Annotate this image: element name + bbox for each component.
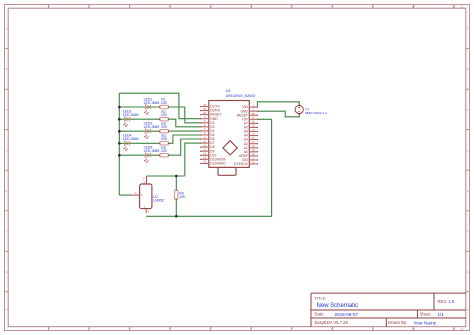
svg-text:LED-3MM: LED-3MM xyxy=(144,149,160,153)
wire: top rail to arduino GND pin xyxy=(119,93,200,119)
border row letters left xyxy=(5,27,8,312)
svg-text:Your Name: Your Name xyxy=(414,320,437,325)
wire: R3 to D4 xyxy=(169,130,201,132)
svg-text:F: F xyxy=(6,229,8,233)
resistor R3 xyxy=(159,130,169,133)
svg-text:12: 12 xyxy=(460,5,464,9)
resistor R2 label xyxy=(161,110,167,117)
LED2 label xyxy=(123,110,139,118)
LED3 xyxy=(144,129,150,139)
svg-text:New Schematic: New Schematic xyxy=(317,303,359,309)
resistor R4 label xyxy=(161,134,167,141)
wire: R6 top lead xyxy=(175,176,177,190)
wire: LM35 left pin to rail xyxy=(119,194,131,196)
svg-text:Date:: Date: xyxy=(315,312,325,317)
op-amp U2 LM35Z body xyxy=(132,176,152,213)
wire: LED row 1 xyxy=(119,106,159,108)
op-amp U3 ARDUINO_NANO body xyxy=(209,101,250,168)
svg-text:Sheet:: Sheet: xyxy=(420,312,432,317)
svg-text:ARDUINO_NANO: ARDUINO_NANO xyxy=(226,94,256,98)
svg-text:200: 200 xyxy=(161,149,167,153)
svg-text:2018-09-07: 2018-09-07 xyxy=(335,312,359,317)
resistor R6 xyxy=(175,189,178,200)
svg-text:REV: 1.0: REV: 1.0 xyxy=(438,299,455,304)
svg-text:200: 200 xyxy=(161,137,167,141)
svg-text:A: A xyxy=(467,27,469,31)
U3 right pin names xyxy=(234,105,249,166)
wire: R2 to D3 xyxy=(169,119,201,127)
svg-text:200: 200 xyxy=(161,125,167,129)
title block frame xyxy=(311,293,466,327)
LED3 label xyxy=(144,122,160,130)
resistor R4 xyxy=(159,142,169,145)
svg-text:200: 200 xyxy=(161,101,167,105)
wire: bottom +5V rail xyxy=(146,119,271,216)
wire: LED row 5 xyxy=(119,154,159,156)
wire: LM35 vout horizontal xyxy=(147,175,185,177)
svg-text:LED-3MM: LED-3MM xyxy=(123,113,139,117)
U3 right pins xyxy=(249,107,257,164)
svg-text:10: 10 xyxy=(411,5,415,9)
wire: R5 to D6 xyxy=(169,139,201,155)
svg-text:11: 11 xyxy=(452,5,455,9)
svg-text:U3: U3 xyxy=(226,89,230,93)
svg-text:200: 200 xyxy=(161,113,167,117)
svg-text:TITLE:: TITLE: xyxy=(315,295,327,300)
LED4 label xyxy=(123,134,139,142)
svg-text:LED-3MM: LED-3MM xyxy=(144,101,160,105)
junction dots xyxy=(118,106,178,218)
resistor R6 label xyxy=(179,191,186,199)
LED1 xyxy=(144,105,150,115)
LED5 label xyxy=(144,146,160,154)
U3 label xyxy=(226,89,256,98)
title block text REV xyxy=(438,299,455,304)
Y1 label xyxy=(305,108,327,115)
wire: R4 to D5 xyxy=(169,135,201,143)
border column numbers top xyxy=(47,5,464,9)
svg-text:D: D xyxy=(5,148,7,152)
U3 diamond mark xyxy=(223,141,237,155)
title block text TITLE xyxy=(315,295,359,309)
border row letters right xyxy=(467,27,470,312)
svg-text:B: B xyxy=(467,67,469,71)
svg-text:D13/SCK: D13/SCK xyxy=(234,162,249,166)
svg-text:10K: 10K xyxy=(179,195,186,199)
resistor R1 xyxy=(159,105,169,108)
svg-text:B: B xyxy=(5,67,7,71)
wire: GND to source bottom xyxy=(257,111,299,117)
LED2 xyxy=(124,117,130,127)
resistor R3 label xyxy=(161,122,167,129)
wire: LED row 4 xyxy=(119,142,159,144)
svg-text:F: F xyxy=(467,229,469,233)
svg-text:E: E xyxy=(467,189,469,193)
resistor R2 xyxy=(159,118,169,121)
svg-text:LED-3MM: LED-3MM xyxy=(144,125,160,129)
wire: D7 to LM35 vout net xyxy=(185,143,201,176)
svg-text:C: C xyxy=(5,108,7,112)
U3 pin end dots xyxy=(200,106,258,165)
U3 usb tab xyxy=(218,167,236,175)
wire: R1 to D2 xyxy=(169,107,201,123)
wire: GND left rail xyxy=(118,93,120,195)
svg-text:12: 12 xyxy=(460,327,464,331)
svg-text:11: 11 xyxy=(452,327,455,331)
svg-text:D: D xyxy=(467,148,469,152)
border column numbers bottom xyxy=(47,327,464,331)
svg-text:Drawn By:: Drawn By: xyxy=(388,320,407,325)
wire: VIN to source top xyxy=(257,102,299,107)
U3 right pin numbers xyxy=(252,104,255,164)
svg-text:LED-3MM: LED-3MM xyxy=(123,137,139,141)
U2 label xyxy=(153,195,165,203)
U3 left pin numbers xyxy=(203,104,206,164)
title block text Date xyxy=(315,312,445,317)
svg-text:A: A xyxy=(5,27,7,31)
LED1 label xyxy=(144,97,160,105)
svg-text:EasyEDA V5.7.26: EasyEDA V5.7.26 xyxy=(315,320,349,325)
svg-text:10: 10 xyxy=(411,327,415,331)
resistor R1 label xyxy=(161,98,167,105)
U3 left pins xyxy=(201,107,209,164)
svg-text:H: H xyxy=(467,308,469,312)
svg-text:E: E xyxy=(5,189,7,193)
wire: R6 bottom lead xyxy=(175,199,177,216)
wire: LED row 2 xyxy=(119,118,159,120)
LED4 xyxy=(124,141,130,151)
svg-text:SIN(0 1 50) AC 1 0: SIN(0 1 50) AC 1 0 xyxy=(305,111,327,115)
svg-text:C: C xyxy=(467,108,469,112)
resistor R5 xyxy=(159,154,169,157)
U2 pin marks xyxy=(135,177,150,214)
svg-text:LM35Z: LM35Z xyxy=(153,199,165,203)
svg-text:H: H xyxy=(5,308,7,312)
voltage source Y1 xyxy=(295,104,303,116)
U3 left pin names xyxy=(210,105,226,166)
svg-text:1/1: 1/1 xyxy=(438,312,445,317)
resistor R5 label xyxy=(161,146,167,153)
title block text EasyEDA row xyxy=(315,320,437,325)
LED5 xyxy=(144,153,150,163)
wire: LED row 3 xyxy=(119,130,159,132)
svg-text:D12/MISO: D12/MISO xyxy=(210,162,226,166)
